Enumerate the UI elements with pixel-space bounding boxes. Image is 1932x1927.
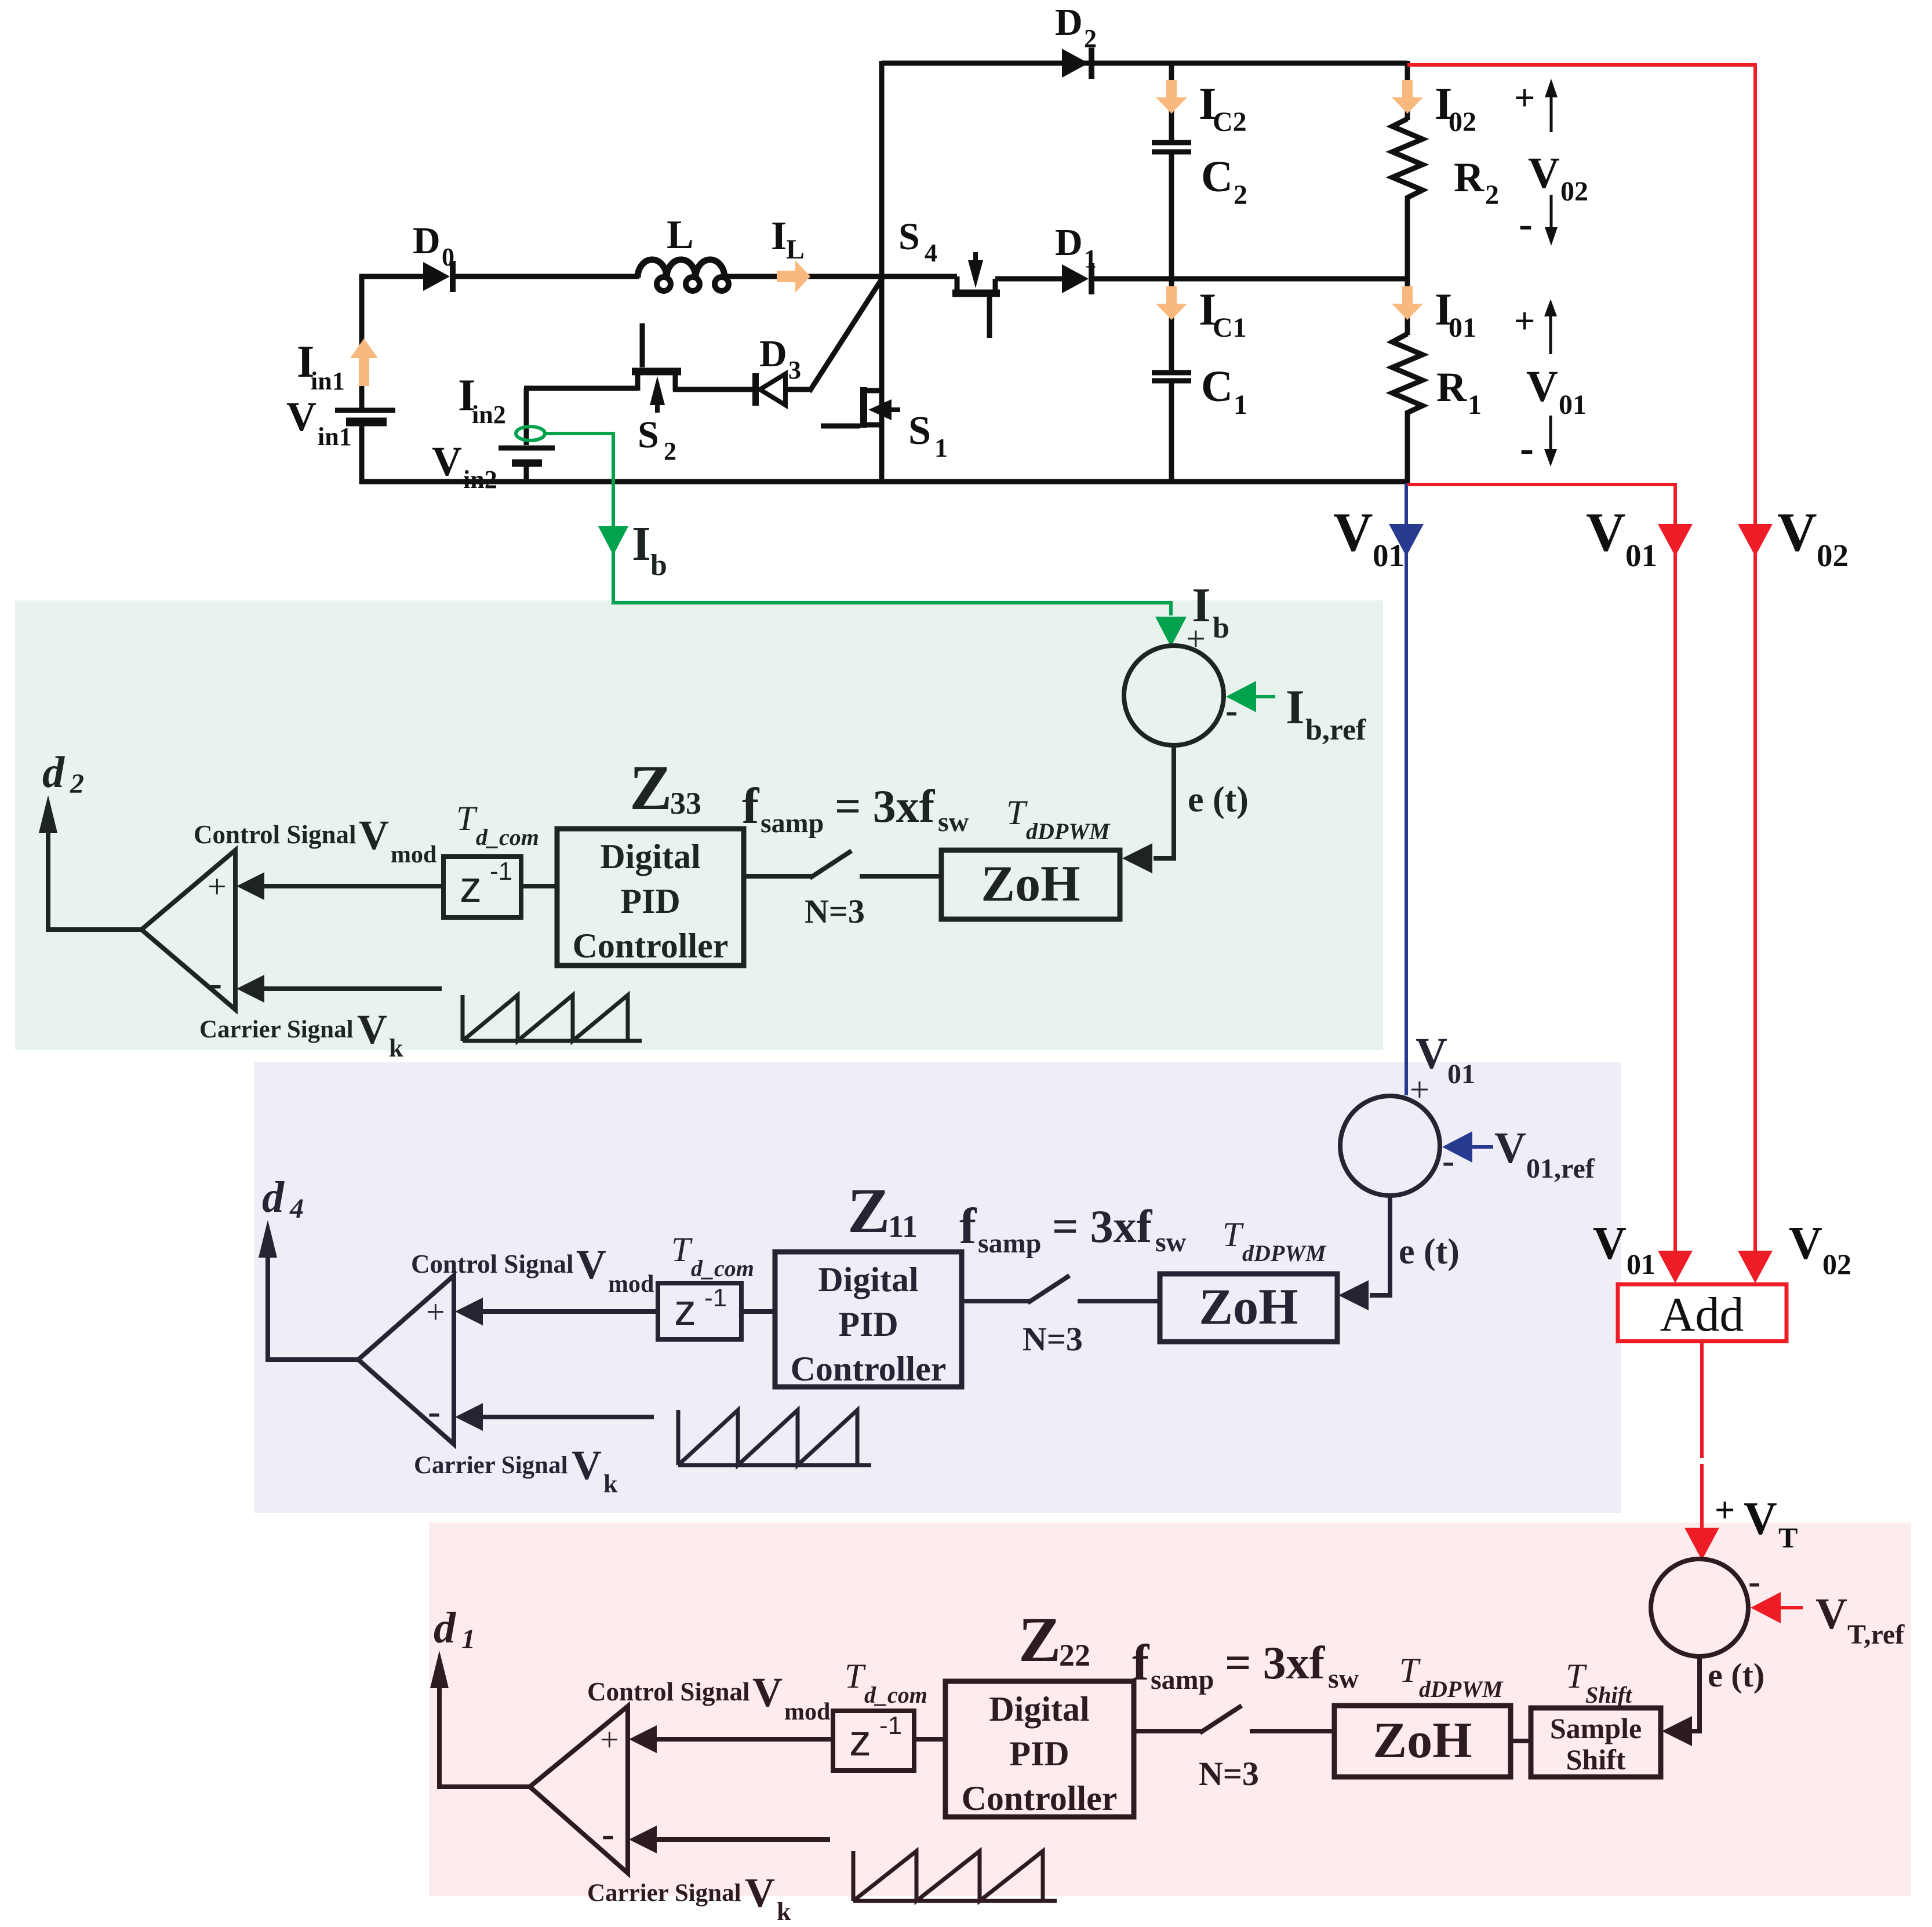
svg-text:d_com: d_com — [691, 1255, 754, 1281]
svg-text:b: b — [650, 549, 667, 582]
comparator (PWM) triangle — [530, 1706, 628, 1873]
capacitor C1 — [1152, 370, 1191, 376]
svg-text:T: T — [845, 1657, 866, 1695]
svg-text:= 3xf: = 3xf — [835, 781, 936, 832]
svg-text:Controller: Controller — [791, 1350, 947, 1388]
svg-text:N=3: N=3 — [1199, 1755, 1259, 1793]
reference input V01,ref (blue arrow) — [1442, 1131, 1472, 1163]
svg-text:D: D — [1055, 221, 1083, 264]
svg-text:d: d — [434, 1604, 456, 1652]
svg-text:Control Signal: Control Signal — [194, 820, 356, 849]
svg-text:Control Signal: Control Signal — [411, 1250, 573, 1278]
svg-text:T: T — [1778, 1521, 1798, 1554]
svg-text:S: S — [908, 409, 931, 453]
svg-text:sw: sw — [1155, 1227, 1187, 1258]
zero-order hold block ZoH — [1160, 1274, 1337, 1342]
svg-text:2: 2 — [1485, 180, 1499, 210]
svg-text:samp: samp — [761, 808, 824, 839]
svg-text:V: V — [359, 812, 389, 858]
current arrow I02 — [1392, 80, 1423, 114]
svg-text:-1: -1 — [879, 1711, 902, 1740]
svg-text:01: 01 — [1373, 538, 1405, 573]
svg-text:V: V — [1593, 1218, 1627, 1269]
diode D3 — [752, 373, 759, 406]
svg-text:R: R — [1436, 364, 1467, 410]
wire Ib sense (green) — [545, 434, 1171, 615]
svg-text:V: V — [1333, 501, 1373, 563]
resistor R2 — [1392, 119, 1422, 202]
svg-text:d_com: d_com — [476, 824, 539, 850]
current arrow IL — [777, 260, 810, 293]
svg-text:D: D — [759, 333, 787, 375]
svg-text:T: T — [1399, 1651, 1421, 1689]
svg-text:Carrier Signal: Carrier Signal — [414, 1452, 568, 1479]
transistor S4 — [952, 290, 1000, 297]
svg-text:dDPWM: dDPWM — [1242, 1240, 1327, 1266]
svg-text:02: 02 — [1560, 176, 1588, 207]
svg-text:+: + — [208, 868, 227, 905]
svg-text:1: 1 — [1234, 389, 1247, 420]
digital PID controller block — [775, 1252, 962, 1387]
svg-text:= 3xf: = 3xf — [1225, 1638, 1326, 1689]
svg-text:C2: C2 — [1213, 107, 1247, 137]
svg-text:ZoH: ZoH — [1199, 1279, 1298, 1335]
battery Vin1 — [335, 408, 395, 413]
svg-text:+: + — [1514, 77, 1535, 118]
summing junction 3 (VT) — [1651, 1559, 1748, 1656]
svg-text:02: 02 — [1822, 1248, 1851, 1280]
svg-text:-1: -1 — [704, 1284, 727, 1312]
digital PID controller block — [557, 829, 744, 966]
svg-text:V: V — [1777, 501, 1817, 563]
battery Vin2 — [524, 388, 529, 445]
reference input VT,ref (red arrow) — [1751, 1592, 1781, 1623]
svg-text:C: C — [1201, 362, 1233, 411]
resistor R2 branch wire — [1405, 61, 1410, 120]
svg-text:2: 2 — [1084, 24, 1097, 53]
svg-text:sw: sw — [1328, 1663, 1359, 1694]
wire e(t) row1 — [1154, 745, 1174, 858]
svg-text:T: T — [1222, 1215, 1244, 1254]
svg-text:mod: mod — [391, 842, 436, 868]
svg-text:k: k — [603, 1470, 618, 1498]
inductor L — [638, 260, 725, 278]
svg-text:-: - — [602, 1813, 614, 1855]
summing junction 2 (V01) — [1340, 1096, 1440, 1196]
svg-text:V: V — [1416, 1029, 1447, 1078]
wire bottom rail — [359, 479, 1410, 485]
svg-text:-: - — [428, 1390, 441, 1433]
svg-text:02: 02 — [1449, 107, 1476, 137]
svg-text:I: I — [1192, 578, 1211, 632]
svg-text:02: 02 — [1817, 538, 1849, 573]
comparator output d arrow — [438, 1784, 530, 1789]
svg-text:z: z — [674, 1285, 696, 1335]
sampler switch N=3 — [744, 874, 812, 879]
wire e(t) row2 — [1370, 1196, 1390, 1295]
svg-text:Control Signal: Control Signal — [587, 1677, 749, 1706]
svg-text:1: 1 — [1468, 389, 1482, 420]
svg-text:in2: in2 — [472, 400, 506, 429]
svg-text:D: D — [413, 220, 441, 262]
diode D0 — [423, 262, 450, 291]
svg-text:mod: mod — [784, 1699, 830, 1725]
svg-text:+: + — [600, 1721, 619, 1758]
svg-text:b: b — [1213, 611, 1229, 644]
capacitor C2 branch wire — [1169, 61, 1174, 140]
digital PID controller block — [945, 1681, 1134, 1817]
svg-text:z: z — [849, 1716, 871, 1765]
svg-text:33: 33 — [670, 786, 701, 821]
svg-text:01: 01 — [1559, 389, 1587, 420]
svg-text:T,ref: T,ref — [1847, 1619, 1905, 1650]
svg-text:V: V — [1586, 501, 1626, 563]
background loop 3 (VT control, pink) — [429, 1522, 1911, 1896]
svg-text:d: d — [262, 1173, 285, 1222]
sample shift block — [1531, 1708, 1661, 1777]
svg-text:4: 4 — [289, 1193, 304, 1224]
current arrow IC1 — [1156, 286, 1187, 320]
current sense loop (green ellipse) — [516, 427, 545, 440]
svg-text:PID: PID — [620, 882, 680, 920]
svg-text:1: 1 — [1084, 245, 1097, 273]
svg-text:Controller: Controller — [573, 927, 729, 965]
svg-text:V: V — [752, 1669, 783, 1715]
comparator + input wire — [455, 1298, 483, 1325]
svg-text:V: V — [286, 394, 316, 440]
zero-order hold block ZoH — [941, 850, 1120, 919]
svg-text:T: T — [456, 799, 478, 837]
svg-text:-: - — [1748, 1561, 1760, 1602]
comparator + input wire — [237, 872, 264, 900]
current arrow IC2 — [1156, 80, 1187, 114]
comparator - input wire (carrier) — [237, 975, 264, 1003]
zero-order hold block ZoH — [1334, 1706, 1511, 1777]
svg-text:4: 4 — [925, 239, 937, 267]
svg-text:-: - — [1519, 201, 1533, 247]
svg-text:Sample: Sample — [1550, 1712, 1642, 1744]
svg-text:in1: in1 — [318, 422, 352, 451]
current arrow Iin1 — [350, 338, 378, 386]
svg-text:22: 22 — [1059, 1638, 1090, 1673]
carrier sawtooth — [678, 1410, 871, 1465]
svg-text:k: k — [389, 1034, 403, 1062]
svg-text:= 3xf: = 3xf — [1052, 1201, 1153, 1252]
svg-text:Z: Z — [630, 752, 672, 823]
svg-text:V: V — [745, 1870, 775, 1916]
svg-text:Carrier Signal: Carrier Signal — [587, 1879, 741, 1907]
svg-text:V: V — [1526, 362, 1558, 411]
svg-text:k: k — [777, 1897, 791, 1926]
svg-text:-1: -1 — [490, 857, 512, 886]
wire node vertical (S1 leg) — [879, 61, 885, 484]
capacitor C1 branch wire — [1169, 276, 1174, 371]
reference input Ib,ref (green arrow) — [1226, 681, 1256, 712]
comparator output d arrow — [47, 927, 141, 932]
diode D2 — [1062, 49, 1089, 78]
svg-text:dDPWM: dDPWM — [1419, 1676, 1504, 1702]
svg-text:+: + — [1715, 1491, 1735, 1530]
svg-text:e (t): e (t) — [1188, 780, 1249, 819]
svg-text:Z: Z — [1018, 1604, 1061, 1675]
wire z to PID — [521, 884, 557, 888]
svg-text:I: I — [771, 214, 787, 258]
svg-text:R: R — [1454, 154, 1485, 201]
comparator - input wire (carrier) — [629, 1826, 657, 1853]
svg-text:11: 11 — [888, 1209, 918, 1244]
svg-text:+: + — [426, 1293, 445, 1331]
svg-text:L: L — [786, 234, 805, 265]
resistor R1 — [1392, 334, 1422, 416]
svg-text:PID: PID — [838, 1305, 898, 1343]
svg-text:in2: in2 — [463, 465, 497, 494]
summing junction 1 (Ib) — [1124, 646, 1224, 745]
svg-text:T: T — [671, 1230, 693, 1269]
svg-text:-: - — [209, 962, 222, 1004]
current arrow I01 — [1392, 286, 1423, 320]
svg-text:Z: Z — [847, 1175, 890, 1246]
svg-text:Digital: Digital — [600, 837, 700, 876]
transistor S2 — [635, 374, 641, 391]
comparator + input wire — [629, 1725, 657, 1753]
sampler switch N=3 — [962, 1299, 1030, 1303]
svg-text:C1: C1 — [1213, 312, 1247, 343]
adder block Add — [1618, 1284, 1787, 1341]
background loop 2 (V01 control, lavender) — [254, 1062, 1621, 1513]
svg-text:Digital: Digital — [818, 1261, 918, 1299]
sampler switch N=3 — [1134, 1729, 1202, 1733]
wire V01 sense (blue) — [1405, 483, 1408, 1095]
svg-text:b,ref: b,ref — [1305, 713, 1366, 746]
svg-text:-: - — [1520, 425, 1534, 471]
svg-text:N=3: N=3 — [805, 893, 865, 930]
svg-text:01: 01 — [1449, 312, 1476, 343]
svg-text:Add: Add — [1660, 1288, 1744, 1342]
wire V02 to Add (red) — [1407, 65, 1755, 1252]
svg-text:ZoH: ZoH — [1373, 1713, 1472, 1769]
svg-text:Controller: Controller — [962, 1779, 1118, 1817]
svg-text:f: f — [959, 1199, 977, 1255]
resistor R1 branch wire — [1405, 276, 1410, 335]
wire main rail y=477 — [359, 274, 423, 279]
comparator - input wire (carrier) — [455, 1403, 483, 1431]
svg-text:2: 2 — [1234, 180, 1247, 210]
svg-text:e (t): e (t) — [1708, 1656, 1764, 1694]
svg-text:Carrier Signal: Carrier Signal — [199, 1016, 354, 1043]
svg-text:d_com: d_com — [864, 1682, 927, 1708]
delay block z^-1 — [443, 857, 521, 917]
svg-text:2: 2 — [664, 437, 676, 465]
svg-text:V: V — [1744, 1493, 1777, 1544]
svg-text:S: S — [638, 414, 659, 456]
svg-text:f: f — [742, 778, 760, 835]
wire D3 to node (diagonal) — [787, 387, 811, 392]
svg-text:V: V — [576, 1241, 606, 1288]
transistor S1 — [860, 387, 867, 428]
svg-text:V: V — [1789, 1218, 1822, 1269]
svg-text:01: 01 — [1627, 1248, 1656, 1280]
svg-text:01: 01 — [1447, 1059, 1475, 1090]
svg-text:0: 0 — [442, 243, 454, 271]
svg-text:V: V — [357, 1006, 387, 1052]
svg-text:Shift: Shift — [1566, 1743, 1626, 1776]
wire z to PID — [914, 1737, 945, 1742]
wire Iin2 to S2 — [524, 386, 638, 391]
svg-text:D: D — [1055, 1, 1083, 43]
svg-text:V: V — [432, 438, 462, 485]
comparator (PWM) triangle — [141, 850, 235, 1010]
svg-text:z: z — [460, 862, 482, 912]
delay block z^-1 — [833, 1711, 914, 1771]
svg-text:sw: sw — [938, 807, 969, 837]
svg-text:1: 1 — [461, 1624, 475, 1655]
svg-text:e (t): e (t) — [1399, 1232, 1460, 1272]
delay block z^-1 — [658, 1283, 741, 1339]
svg-text:V: V — [1494, 1124, 1526, 1172]
svg-text:V: V — [1815, 1590, 1847, 1638]
background loop 1 (Ib control, mint) — [15, 600, 1383, 1050]
svg-text:1: 1 — [934, 433, 948, 462]
svg-text:T: T — [1006, 793, 1028, 832]
svg-text:Shift: Shift — [1585, 1682, 1633, 1708]
svg-text:01: 01 — [1625, 538, 1657, 573]
svg-text:samp: samp — [978, 1228, 1041, 1259]
svg-text:N=3: N=3 — [1023, 1320, 1083, 1358]
wire Add to VT sum (red) — [1700, 1341, 1704, 1458]
wire left branch vertical (Vin1) — [359, 274, 365, 408]
svg-text:+: + — [1514, 300, 1535, 341]
svg-text:V: V — [572, 1442, 602, 1488]
svg-text:PID: PID — [1009, 1735, 1069, 1773]
svg-text:S: S — [898, 216, 920, 258]
svg-text:d: d — [42, 748, 65, 797]
svg-text:C: C — [1201, 152, 1233, 201]
svg-text:I: I — [632, 517, 651, 571]
svg-text:Digital: Digital — [989, 1690, 1089, 1728]
svg-text:3: 3 — [788, 356, 801, 384]
wire top rail — [882, 61, 1407, 66]
carrier sawtooth — [853, 1851, 1057, 1901]
svg-text:01,ref: 01,ref — [1526, 1153, 1595, 1184]
svg-text:samp: samp — [1151, 1664, 1214, 1695]
svg-text:ZoH: ZoH — [981, 856, 1080, 912]
wire ZoH to sample shift — [1511, 1739, 1531, 1743]
svg-text:in1: in1 — [311, 367, 345, 395]
wire e(t) row3 — [1688, 1656, 1700, 1731]
comparator output d arrow — [267, 1357, 358, 1362]
svg-text:2: 2 — [70, 768, 84, 799]
svg-text:dDPWM: dDPWM — [1026, 818, 1111, 844]
wire V01 to Add (red) — [1407, 485, 1675, 1252]
wire z to PID — [741, 1309, 775, 1314]
svg-text:V: V — [1528, 149, 1560, 198]
svg-text:I: I — [1286, 680, 1305, 734]
svg-text:f: f — [1132, 1635, 1150, 1691]
carrier sawtooth — [463, 995, 642, 1041]
comparator (PWM) triangle — [358, 1276, 454, 1444]
svg-text:mod: mod — [608, 1271, 654, 1298]
diode D1 — [1062, 264, 1089, 293]
capacitor C2 — [1152, 140, 1191, 145]
svg-text:T: T — [1566, 1657, 1587, 1695]
svg-text:L: L — [667, 213, 694, 257]
